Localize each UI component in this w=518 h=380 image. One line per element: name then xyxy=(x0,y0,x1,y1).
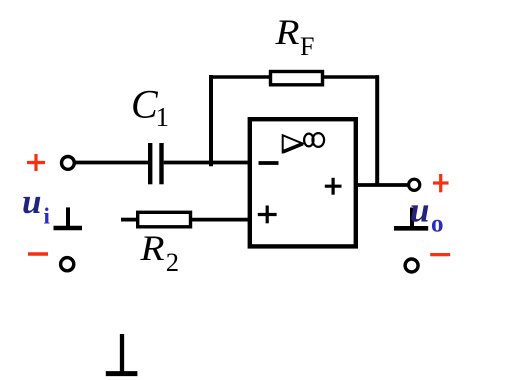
svg-text:R: R xyxy=(139,228,164,268)
op-amp infinity symbol xyxy=(304,133,324,147)
svg-text:1: 1 xyxy=(156,102,170,132)
wire: feedback right vertical xyxy=(375,75,379,185)
svg-text:2: 2 xyxy=(166,247,179,277)
input - polarity (red) xyxy=(28,252,48,255)
wire: feedback vertical at node junction xyxy=(209,75,213,166)
wire: input to capacitor xyxy=(76,161,149,165)
op-amp inverting input label (minus) xyxy=(259,161,279,165)
wire: feedback top left xyxy=(209,75,269,79)
svg-text:F: F xyxy=(300,32,314,61)
output - polarity (red) xyxy=(430,253,450,256)
ground tick near uo xyxy=(394,208,428,229)
terminal: input top xyxy=(62,157,75,170)
op-amp gain triangle xyxy=(283,135,303,152)
svg-text:R: R xyxy=(274,12,299,52)
svg-text:i: i xyxy=(44,204,51,229)
op-amp non-inverting input label (plus) xyxy=(258,206,277,224)
wire: feedback top right xyxy=(323,75,380,79)
terminal: output top xyxy=(409,179,420,190)
terminal: output bottom xyxy=(405,259,418,272)
svg-text:o: o xyxy=(431,211,444,238)
resistor R2 xyxy=(138,212,191,227)
input + polarity (red) xyxy=(27,154,45,171)
wire: R2 to op-amp non-inverting input xyxy=(192,218,251,222)
ground symbol bottom xyxy=(106,334,138,374)
svg-text:u: u xyxy=(410,191,429,230)
ground tick near ui xyxy=(54,207,83,228)
wire: op-amp output xyxy=(355,183,408,187)
resistor RF xyxy=(271,72,323,85)
capacitor C1 xyxy=(150,143,161,184)
output + polarity (red) xyxy=(433,174,449,192)
op-amp output polarity label (plus) xyxy=(325,178,342,195)
terminal: input bottom xyxy=(61,258,74,271)
svg-text:u: u xyxy=(22,182,41,221)
op-amp U1 box xyxy=(250,119,356,246)
wire: capacitor to op-amp inverting input xyxy=(164,161,250,165)
wire: R2 left stub xyxy=(121,218,137,222)
